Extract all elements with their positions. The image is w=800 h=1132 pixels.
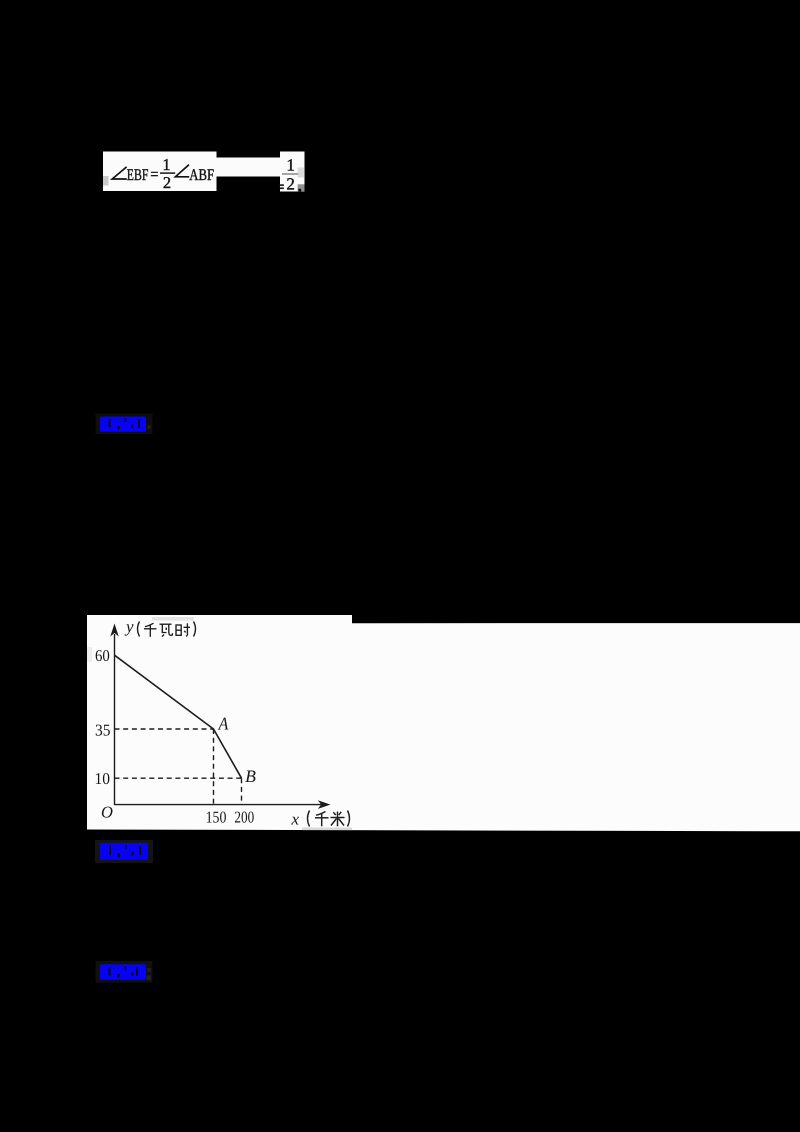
y-axis title: char qian xyxy=(144,623,157,637)
faint smudge above y-axis title xyxy=(152,617,194,621)
partially covered equals sign left of box 2 xyxy=(280,184,284,186)
fraction bar (box 1) xyxy=(160,172,175,174)
y-axis title: char wa xyxy=(160,624,173,636)
white patch: formula box 1 xyxy=(103,152,217,192)
y-axis title: full-width close paren xyxy=(194,622,196,637)
svg-text:60: 60 xyxy=(95,646,110,665)
dark panel behind blue label 3 xyxy=(96,961,153,983)
dark panel behind blue label 2 xyxy=(95,840,153,863)
svg-text:y: y xyxy=(124,617,134,636)
dashed line x=200 xyxy=(241,778,243,804)
svg-text:35: 35 xyxy=(95,721,111,740)
svg-text:A: A xyxy=(218,713,229,733)
svg-text:ABF: ABF xyxy=(189,165,214,184)
x-axis title: full-width close paren xyxy=(348,811,350,827)
blue label 1 xyxy=(100,417,146,432)
svg-text:1: 1 xyxy=(286,155,295,174)
svg-text:200: 200 xyxy=(234,807,254,826)
angle symbol 2 xyxy=(175,165,189,177)
y-axis title: full-width open paren xyxy=(138,622,140,637)
svg-text:EBF: EBF xyxy=(127,165,149,184)
white patch: connecting strip xyxy=(216,158,282,177)
blue label 3 xyxy=(100,964,146,980)
x-axis title: char qian xyxy=(315,812,329,827)
svg-text:B: B xyxy=(245,766,256,786)
white band behind chart (main) xyxy=(87,623,800,831)
dark panel behind blue label 1 xyxy=(96,414,153,435)
blue label 2 xyxy=(100,843,148,860)
curve segment A to B xyxy=(115,655,242,778)
faint punctuation after blue label 1 xyxy=(148,426,151,429)
dashed line y=35 xyxy=(115,728,214,730)
x-axis title: char mi xyxy=(331,812,345,827)
y-axis xyxy=(114,634,116,805)
svg-text:1: 1 xyxy=(162,155,170,174)
gray smudge left edge of box 1 xyxy=(103,176,109,186)
svg-text:=: = xyxy=(150,164,158,183)
x-axis xyxy=(115,804,322,806)
x-axis title: full-width open paren xyxy=(308,811,310,827)
gray smudge right-mid of box 2 xyxy=(298,168,304,178)
white patch: formula box 2 xyxy=(280,152,305,192)
svg-text:10: 10 xyxy=(95,769,111,788)
svg-text:150: 150 xyxy=(206,807,227,826)
svg-text:2: 2 xyxy=(163,173,171,192)
angle symbol 1 xyxy=(112,167,127,179)
dashed line y=10 xyxy=(115,777,242,779)
gray smudge bottom-right of box 2 xyxy=(298,184,305,191)
x-axis arrowhead xyxy=(318,800,331,809)
svg-text:O: O xyxy=(101,802,113,821)
faint punctuation after blue label 3 xyxy=(147,968,151,972)
faint smudge below x-axis title xyxy=(302,828,352,831)
svg-text:2: 2 xyxy=(286,175,295,194)
period after fraction xyxy=(298,189,301,192)
y-axis arrowhead xyxy=(110,624,118,637)
faint smudge left of 60 xyxy=(87,647,92,662)
y-axis title: char shi xyxy=(176,623,190,636)
fraction bar (box 2) xyxy=(282,173,298,175)
white band behind chart (upper-left extension) xyxy=(87,615,352,624)
svg-text:x: x xyxy=(291,810,300,829)
dashed line x=150 xyxy=(213,729,215,805)
